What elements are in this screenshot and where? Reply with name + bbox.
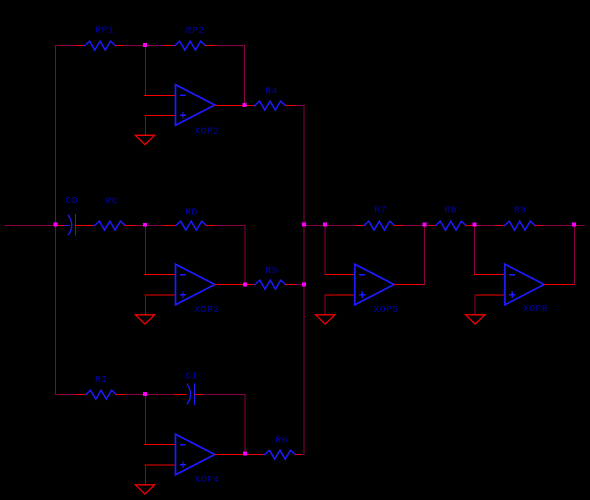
svg-text:XOP4: XOP4 [194,474,219,485]
wire stage2 plus input down to ground [144,295,146,315]
op-amp XOP2 [176,85,220,137]
wire R4 to main bus corner [296,105,304,107]
wire RP2 to corner [216,45,245,47]
resistor R7 [356,205,405,230]
node R5 bus junction [302,283,306,287]
svg-text:RC: RC [106,195,119,206]
wire bottom summing node to CI [145,394,175,396]
wire XOP6 output [544,284,574,286]
svg-text:R7: R7 [374,205,387,216]
wire stage1 minus input horizontal [145,95,176,97]
wire XOP4 output [215,454,265,456]
node XOP2 output junction [243,103,247,107]
svg-text:RI: RI [95,374,108,385]
node bus center junction [302,223,306,227]
wire RI to bottom summing node [126,394,145,396]
resistor RC [95,195,137,230]
wire top row left segment [55,45,75,47]
svg-text:RP2: RP2 [186,25,205,36]
wire XOP6 output riser [573,226,575,285]
wire XOP2 output [215,105,255,107]
wire stage3 plus input horizontal [145,464,176,466]
svg-text:XOP6: XOP6 [523,303,548,314]
wire corner down to XOP2 output junction [244,46,246,106]
svg-text:XOP5: XOP5 [374,304,399,315]
wire R9 to output end [543,225,585,227]
wire XOP6 input node to R9 [475,225,495,227]
wire RC to center summing node [137,225,145,227]
wire corner down to XOP4 output junction [244,395,246,455]
svg-text:R4: R4 [265,85,278,96]
node stage1 summing junction [143,43,147,47]
wire RD to corner [216,225,246,227]
wire R6 to main bus corner [302,454,304,456]
wire stage3 summing node down to minus input [144,395,146,445]
wire corner down to XOP3 output junction [244,226,246,285]
ground XOP5 [316,315,335,324]
node XOP6 output junction [572,223,576,227]
svg-text:R5: R5 [265,265,278,276]
wire R5 to main bus [296,284,304,286]
node XOP6 input junction [473,223,477,227]
op-amp XOP6 [505,264,548,314]
wire main bus vertical [303,105,305,455]
wire center row right of bus [304,225,356,227]
svg-text:XOP3: XOP3 [194,304,219,315]
svg-text:RP1: RP1 [95,25,114,36]
svg-text:CD: CD [66,195,79,206]
wire left bus vertical [54,46,56,395]
svg-text:RD: RD [185,206,198,217]
wire R7 to XOP5 output node [404,225,429,227]
wire stage1 summing node down to minus input [144,46,146,96]
node XOP4 output junction [243,452,247,456]
resistor R5 [255,265,296,289]
wire stage2 plus input horizontal [145,294,176,296]
node stage3 summing junction [143,392,147,396]
resistor R6 [265,434,302,459]
wire XOP3 output [215,284,255,286]
resistor R4 [255,85,296,110]
wire CI to corner [203,394,245,396]
wire stage1 plus input horizontal [145,115,176,117]
svg-text:R9: R9 [514,205,527,216]
resistor RP1 [75,25,124,50]
svg-text:R8: R8 [444,205,457,216]
wire XOP6 plus input horizontal [475,294,505,296]
ground XOP6 [466,315,485,324]
wire XOP6 minus input horizontal [475,274,505,276]
capacitor CD [55,195,94,235]
node XOP5 output junction [423,223,427,227]
wire center summing node to RD [145,225,165,227]
node input junction [53,223,57,227]
node center summing junction [143,223,147,227]
wire stage2 minus input horizontal [145,274,176,276]
capacitor CI [175,371,203,405]
resistor R9 [495,205,543,230]
resistor R8 [429,205,475,230]
wire XOP5 minus input horizontal [325,274,355,276]
wire XOP5 input node down to minus input [324,226,326,275]
svg-text:R6: R6 [275,434,288,445]
ground stage2 [135,315,154,324]
wire XOP5 output [394,284,424,286]
wire bottom row from left bus [55,394,75,396]
wire XOP6 plus input down to ground [474,295,476,315]
wire stage1 plus input down to ground [144,116,146,136]
wire stage3 minus input horizontal [145,444,176,446]
op-amp XOP5 [355,264,399,315]
node XOP5 input junction [323,223,327,227]
wire XOP5 plus input horizontal [325,294,355,296]
wire XOP5 plus input down to ground [324,295,326,315]
resistor RP2 [164,25,216,50]
op-amp XOP3 [176,264,220,315]
op-amp XOP4 [176,434,220,485]
wire RP1 to summing node [124,45,145,47]
node XOP3 output junction [243,283,247,287]
svg-text:CI: CI [186,371,199,382]
resistor RD [164,206,216,230]
ground stage1 [135,135,154,144]
wire XOP5 output riser [424,226,426,285]
wire summing node to RP2 [145,45,165,47]
ground stage3 [135,485,154,494]
svg-text:XOP2: XOP2 [194,125,219,136]
wire XOP6 input node down to minus input [474,226,476,275]
wire stage2 summing node down to minus input [144,226,146,275]
wire input stub [5,225,54,227]
wire stage3 plus input down to ground [144,465,146,485]
resistor RI [75,374,126,399]
